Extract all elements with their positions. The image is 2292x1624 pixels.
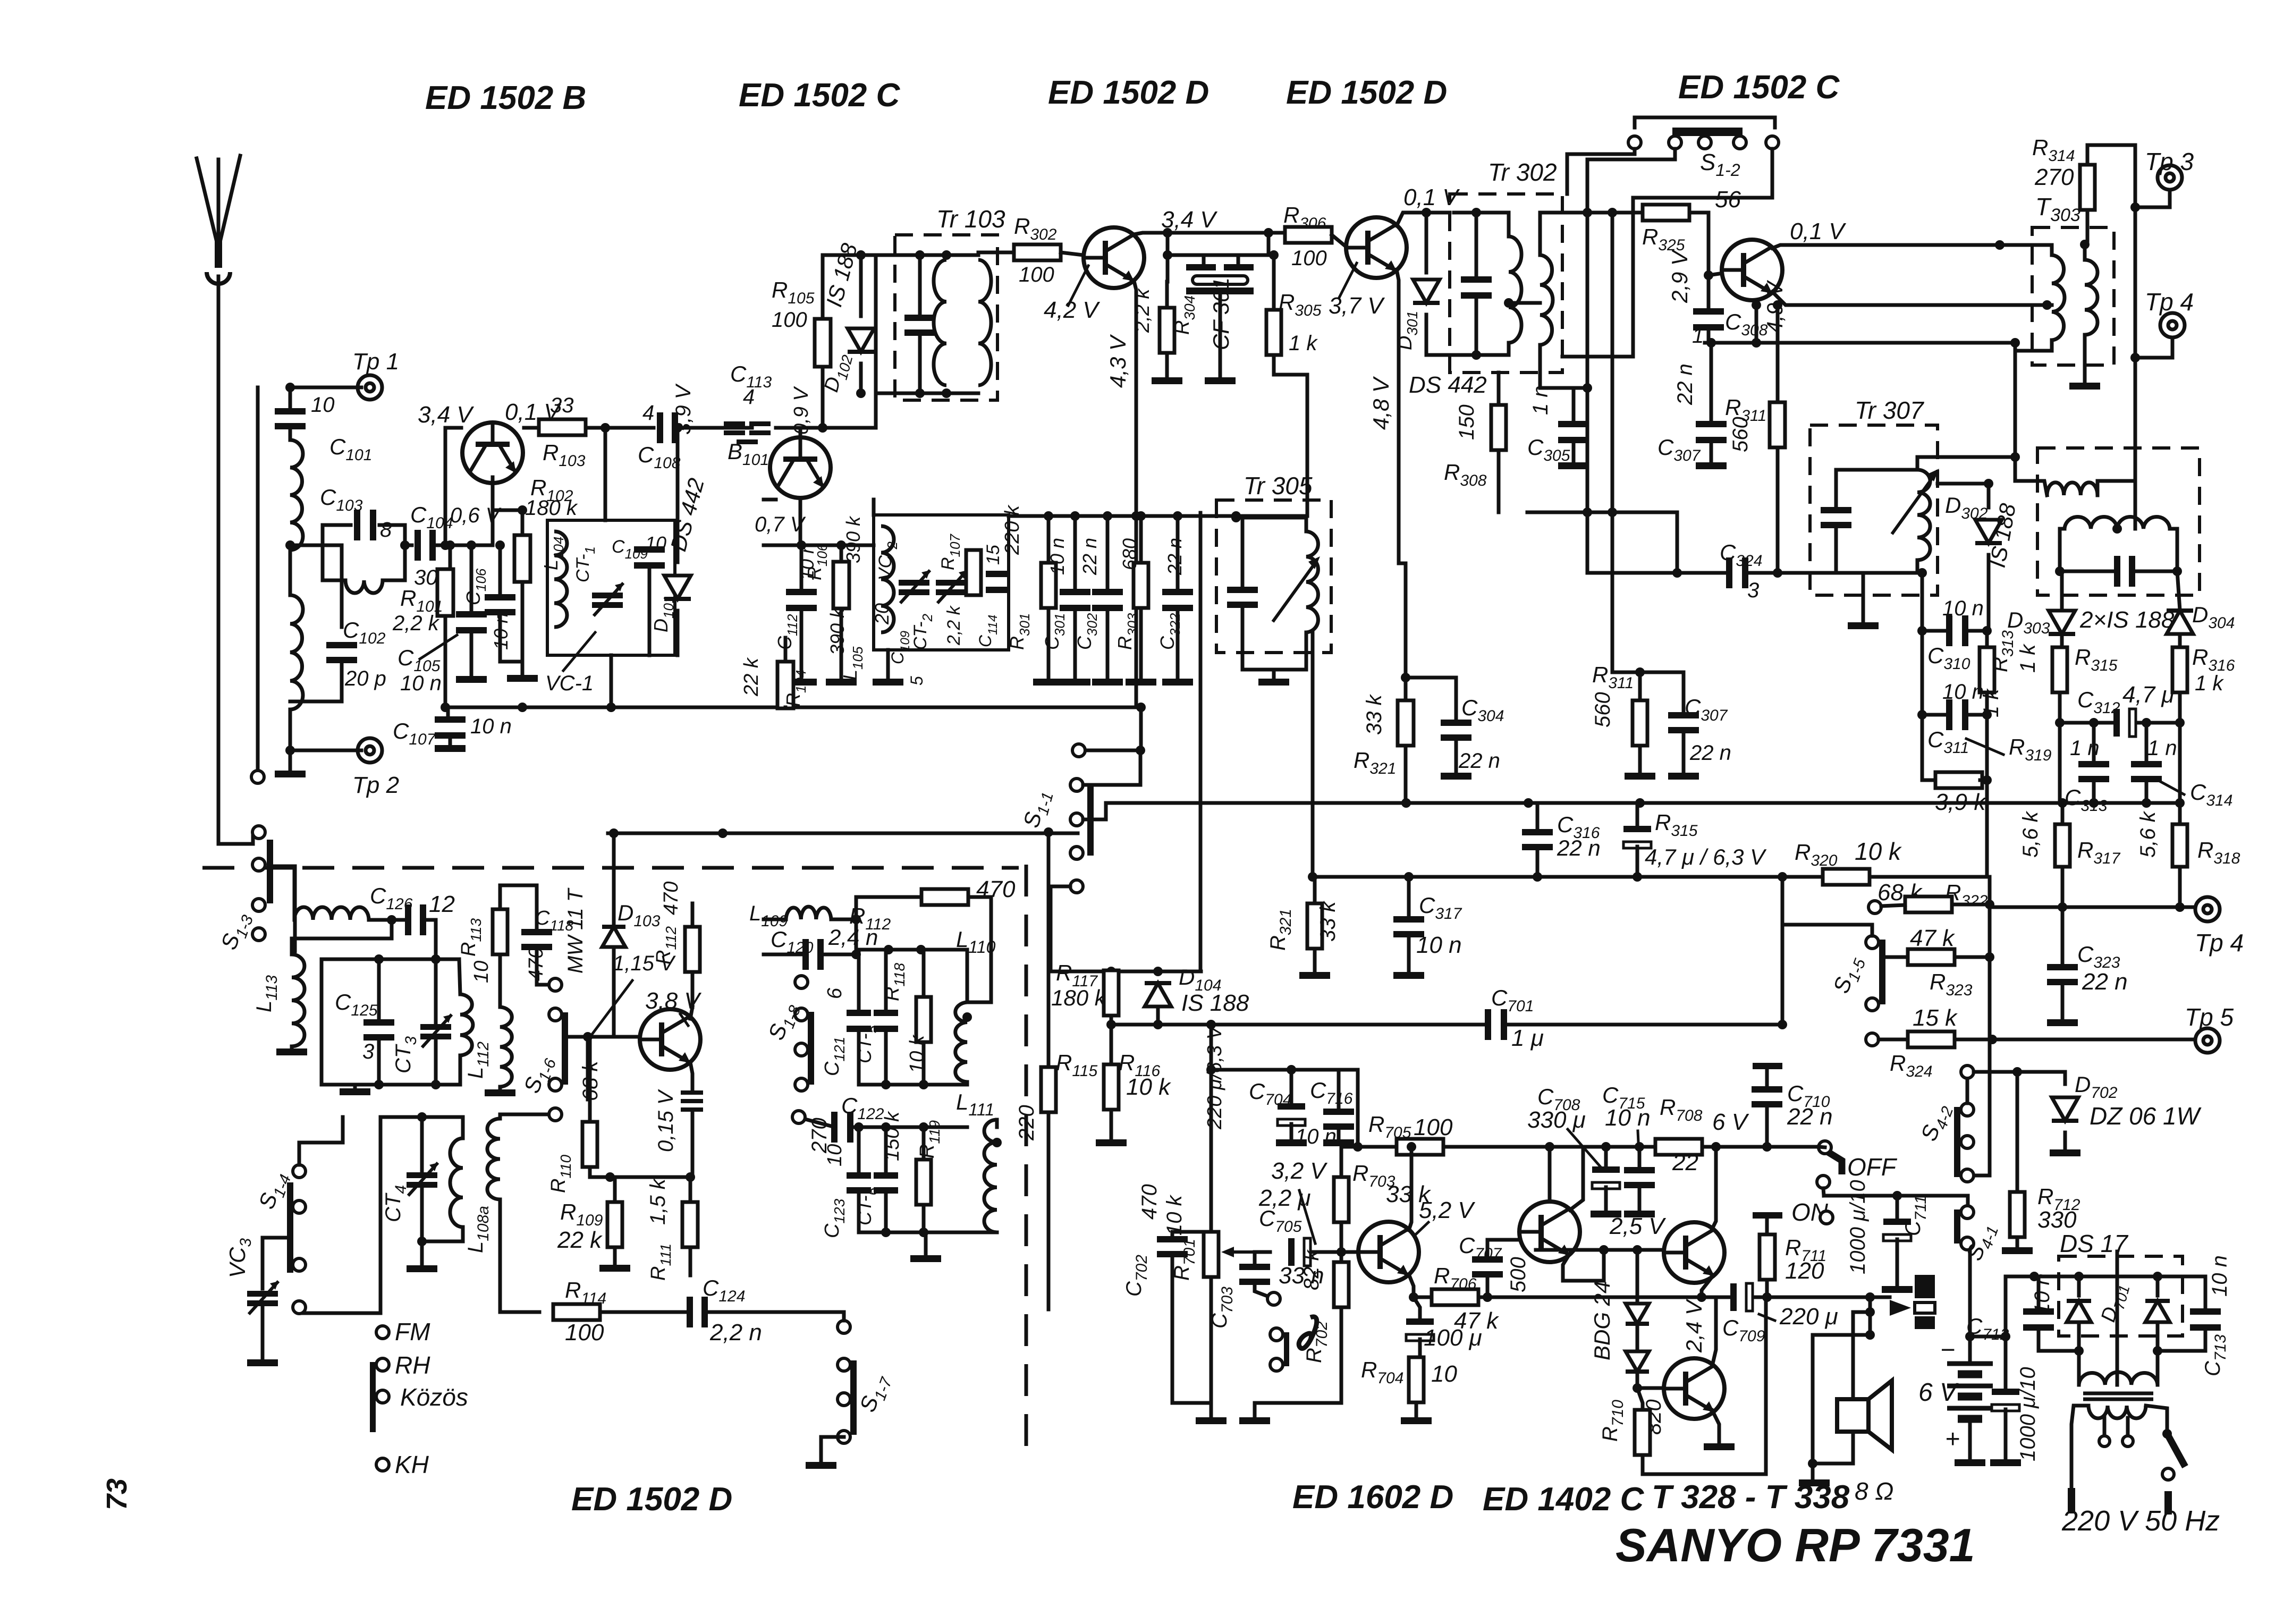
svg-text:33: 33 bbox=[550, 394, 574, 417]
wire C317 top bbox=[1407, 877, 1411, 918]
svg-text:22 n: 22 n bbox=[2082, 969, 2128, 995]
svg-text:2,9 V: 2,9 V bbox=[1667, 249, 1692, 303]
MW tank coil bbox=[460, 994, 473, 1055]
node x3354 AGC bbox=[1778, 1020, 1787, 1029]
wire bbox=[498, 885, 502, 909]
wire C716 bottom bbox=[1337, 1128, 1341, 1138]
resistor R316 bbox=[2172, 647, 2187, 692]
wire C708 bottom bbox=[1418, 1339, 1422, 1357]
wire right column bbox=[2014, 343, 2017, 481]
ground L112 bbox=[485, 1089, 515, 1096]
S1-6 contact bottom bbox=[549, 1108, 562, 1121]
wire C311 right bbox=[1969, 713, 1987, 717]
wire jack contacts bbox=[1868, 1297, 1872, 1335]
svg-text:3: 3 bbox=[1747, 579, 1759, 602]
wire T102 emitter left bbox=[764, 498, 776, 502]
terminal RH bbox=[376, 1358, 389, 1371]
wire T702 collector bbox=[1548, 1147, 1552, 1202]
svg-text:100: 100 bbox=[1291, 247, 1327, 270]
arrow C715 bbox=[1638, 1131, 1639, 1165]
wire R703 bottom bbox=[1340, 1222, 1343, 1252]
node C714 bbox=[2001, 1332, 2010, 1341]
wire S1-1 to detector row bbox=[1051, 886, 1070, 971]
wire sec left lead bbox=[2077, 1351, 2081, 1385]
arrow 5,2V bbox=[1416, 1222, 1428, 1234]
ground C716 bbox=[1323, 1139, 1354, 1146]
svg-text:12: 12 bbox=[429, 891, 455, 917]
pot wiper arrow bbox=[1228, 1250, 1270, 1254]
ground L113 bbox=[276, 1048, 307, 1055]
capacitor C105 bbox=[456, 611, 487, 633]
resistor R110 box bbox=[582, 1122, 597, 1167]
wire to diodes bbox=[1636, 1250, 1639, 1300]
svg-text:3,4 V: 3,4 V bbox=[418, 402, 474, 428]
svg-text:DS 442: DS 442 bbox=[1409, 372, 1487, 398]
wire bbox=[521, 510, 525, 535]
svg-text:500: 500 bbox=[1507, 1257, 1530, 1292]
svg-text:10 n: 10 n bbox=[2031, 1273, 2054, 1315]
wire battery top bbox=[1968, 1337, 1972, 1364]
wire T301 emitter down bbox=[1134, 281, 1136, 707]
wire R702 to ground bbox=[1255, 1307, 1341, 1416]
wire R712 bottom bbox=[2016, 1237, 2019, 1246]
node jack sleeve bbox=[1865, 1330, 1875, 1340]
wire R706 right bbox=[1478, 1296, 1527, 1299]
wire R105 bottom bbox=[821, 367, 825, 428]
wire C708a top bbox=[1604, 1147, 1608, 1168]
wire coil top bbox=[459, 959, 460, 994]
ground R321 e bbox=[1299, 972, 1330, 979]
wire bbox=[1168, 233, 1204, 255]
wire sec top bbox=[2083, 244, 2087, 260]
wire 470 right bbox=[968, 897, 991, 1002]
wire emitter bbox=[690, 1062, 692, 1089]
svg-text:5: 5 bbox=[907, 676, 926, 686]
wire Tr302 top bbox=[1454, 213, 1509, 236]
capacitor C123 plates bbox=[847, 1172, 871, 1194]
S1-3 contact bottom bbox=[252, 928, 265, 941]
resistor R315 bbox=[2052, 647, 2067, 692]
ground R311 lower bbox=[1625, 773, 1655, 780]
svg-text:2,4 V: 2,4 V bbox=[1681, 1298, 1706, 1353]
wire C301 bottom bbox=[1073, 610, 1077, 678]
ground R712 bbox=[2002, 1247, 2033, 1254]
diode D103 symbol bbox=[602, 927, 625, 947]
wire CF top bbox=[1204, 253, 1238, 257]
wire feedback loop bbox=[1643, 1297, 1766, 1474]
resistor R106 bbox=[833, 562, 849, 608]
svg-text:10 k: 10 k bbox=[1126, 1074, 1171, 1100]
resistor R311 560 lower bbox=[1633, 700, 1647, 746]
ground R303 bbox=[1126, 679, 1156, 686]
svg-text:150: 150 bbox=[1455, 404, 1478, 440]
wire bbox=[612, 833, 616, 925]
Tr307 coil bbox=[1917, 470, 1930, 560]
detector coupling coil bbox=[2047, 483, 2098, 495]
wire R106 top bbox=[840, 545, 843, 562]
node jack ring bbox=[1865, 1307, 1875, 1317]
wire R314 top bbox=[2087, 145, 2135, 165]
wire coupling to center bbox=[2098, 481, 2135, 495]
wire bbox=[470, 632, 473, 675]
svg-text:330 μ: 330 μ bbox=[1527, 1107, 1586, 1133]
svg-text:220 μ/6,3 V: 220 μ/6,3 V bbox=[1204, 1024, 1226, 1130]
wire S4-2 up bbox=[1966, 1072, 1969, 1103]
wire R106 bottom bbox=[840, 608, 843, 678]
wire bbox=[405, 544, 412, 547]
wire sec bottom bbox=[1538, 345, 1542, 375]
svg-text:1000 μ/10: 1000 μ/10 bbox=[1846, 1180, 1870, 1274]
wire bbox=[290, 544, 323, 547]
S1-8 contact top bbox=[795, 976, 808, 988]
primary tap 2 bbox=[2122, 1436, 2133, 1447]
wire y1828 bbox=[1051, 970, 1201, 974]
wire C313 top bbox=[2092, 723, 2096, 761]
wire Tr307 top bbox=[1836, 468, 1917, 472]
wire to L113 bbox=[273, 866, 295, 951]
wire Tp4 row bbox=[1990, 906, 2195, 909]
wire L110 top to 470 bbox=[967, 1001, 991, 1004]
svg-text:5,6 k: 5,6 k bbox=[2136, 810, 2160, 858]
wire to T303stage base bbox=[1689, 213, 1709, 275]
wire C324 left bbox=[1677, 571, 1730, 575]
wire T303 top bbox=[2000, 245, 2052, 255]
wire base row bbox=[1536, 1248, 1662, 1252]
node 4,7u bbox=[1633, 872, 1642, 882]
node output bbox=[1697, 1292, 1706, 1302]
node Tp2 junction bbox=[285, 746, 295, 755]
wire R711 bottom bbox=[1765, 1280, 1769, 1297]
wire C125 bottom bbox=[377, 1039, 381, 1085]
wire to B101 bbox=[776, 426, 876, 430]
wire R303 bottom bbox=[1139, 608, 1143, 678]
ground C112 bbox=[786, 679, 817, 686]
svg-text:220: 220 bbox=[1015, 1105, 1038, 1141]
wire C121 top bbox=[857, 950, 861, 1011]
wire x3354 rail to AGC bbox=[1781, 877, 1784, 1025]
mid rail bbox=[1009, 514, 1307, 518]
headphone jack bbox=[1915, 1275, 1935, 1298]
ground C323 bbox=[2047, 1019, 2078, 1026]
inductor L108a bbox=[487, 1119, 500, 1199]
wire CF right bbox=[1237, 255, 1240, 264]
wire R308 bottom bbox=[1497, 450, 1501, 512]
wire bbox=[498, 1087, 502, 1088]
inductor L105 bbox=[881, 526, 894, 632]
wire up to rectifier rail bbox=[2006, 1276, 2205, 1337]
node speaker ground bbox=[1808, 1459, 1817, 1468]
wire OFF down bbox=[1823, 1188, 1824, 1196]
capacitor C711 1000u bbox=[1883, 1219, 1911, 1241]
wire emitter left bbox=[445, 426, 461, 430]
wire Tp3 column bbox=[2134, 145, 2137, 207]
terminal tap 2 bbox=[1270, 1358, 1283, 1371]
S4-2 contact bottom bbox=[1961, 1169, 1974, 1182]
wire R116 top bbox=[1110, 1025, 1113, 1064]
wire D702 top bbox=[2063, 1072, 2067, 1084]
wire C304 top bbox=[1454, 678, 1458, 721]
wire T704 base bbox=[1637, 1386, 1662, 1390]
svg-text:10: 10 bbox=[645, 532, 666, 554]
inductor L112 bbox=[500, 1007, 512, 1087]
wire 4,7u top bbox=[1636, 803, 1639, 827]
wire Tr302 bottom bbox=[1426, 353, 1509, 357]
wire Tr307 link right bbox=[1917, 457, 2015, 470]
wire bbox=[521, 582, 525, 674]
ground C105 bbox=[456, 676, 487, 683]
test point Tp 2 bbox=[358, 738, 382, 763]
wire Tr305 cap bottom bbox=[1241, 607, 1245, 670]
wire D304 bottom bbox=[2178, 634, 2182, 647]
wire to Tp4 bbox=[2135, 340, 2172, 358]
wire bbox=[586, 1037, 590, 1099]
node R317 bottom bbox=[2058, 902, 2067, 912]
capacitor C307 lower bbox=[1668, 712, 1699, 733]
wire bbox=[289, 426, 292, 440]
svg-text:330: 330 bbox=[2037, 1207, 2077, 1233]
svg-text:RH: RH bbox=[395, 1351, 430, 1379]
wire C702 bottom bbox=[1172, 1256, 1211, 1403]
svg-text:1: 1 bbox=[1692, 324, 1704, 348]
svg-text:ED 1502 D: ED 1502 D bbox=[1048, 74, 1209, 111]
svg-text:2,2 k: 2,2 k bbox=[392, 612, 440, 635]
node 3,4V bbox=[1163, 228, 1172, 238]
svg-text:22 n: 22 n bbox=[1673, 363, 1697, 405]
svg-text:6 V: 6 V bbox=[1918, 1378, 1959, 1407]
wire R315 down bbox=[2058, 692, 2062, 803]
wire x3744 to S4-2 bbox=[1975, 1039, 1990, 1175]
wire bbox=[289, 550, 292, 595]
wire C310 right bbox=[1969, 629, 1987, 633]
wire bbox=[856, 948, 967, 952]
wire R313 top bbox=[1985, 631, 1989, 647]
wire VC3 bottom bbox=[261, 1308, 265, 1358]
svg-text:1 μ: 1 μ bbox=[1511, 1025, 1544, 1051]
svg-text:22 k: 22 k bbox=[557, 1227, 603, 1253]
wire x2259 from mid rail bbox=[1199, 513, 1203, 971]
wire C316 top bbox=[1536, 803, 1540, 831]
wire S1-6 to T107 base bbox=[568, 1035, 638, 1039]
transistor T703 bbox=[1664, 1222, 1724, 1283]
ground tank2 bbox=[910, 1255, 941, 1262]
wire R304 bottom bbox=[1165, 353, 1169, 376]
svg-text:100: 100 bbox=[1019, 263, 1054, 286]
wire col down to C324 bbox=[1587, 512, 1677, 573]
svg-text:15: 15 bbox=[983, 545, 1003, 565]
S1-2 contact 2 bbox=[1669, 136, 1681, 149]
capacitor C714 1000u bbox=[1992, 1389, 2019, 1411]
wire R305 down to rail bbox=[1274, 355, 1307, 516]
wire cap top bbox=[918, 255, 922, 316]
wire D102 top bbox=[859, 255, 863, 316]
wire link bbox=[1640, 671, 1684, 674]
wire bbox=[691, 972, 695, 1007]
wire L111 top bbox=[995, 1120, 999, 1127]
Tr302 secondary coil bbox=[1540, 255, 1553, 345]
wire C125 top bbox=[377, 959, 381, 1020]
svg-text:220 μ: 220 μ bbox=[1779, 1304, 1838, 1330]
wire center tap bbox=[2134, 481, 2137, 529]
wire det right down bbox=[2170, 529, 2177, 571]
ground Tr305 bbox=[1258, 679, 1289, 686]
wire collector bbox=[690, 1007, 692, 1019]
wire rail to tile F bbox=[1443, 1145, 1542, 1149]
svg-text:IS 188: IS 188 bbox=[1181, 990, 1249, 1016]
ground C317 bbox=[1393, 972, 1424, 979]
svg-text:680: 680 bbox=[1119, 538, 1140, 570]
wire pot feed bbox=[1210, 1025, 1213, 1232]
svg-text:270: 270 bbox=[2034, 164, 2074, 190]
wire to C126 bbox=[369, 918, 408, 922]
wire C710 bottom bbox=[1765, 1106, 1769, 1147]
terminal FM bbox=[376, 1326, 389, 1339]
svg-text:ED 1502 B: ED 1502 B bbox=[425, 80, 586, 116]
svg-text:4,7 μ: 4,7 μ bbox=[2122, 682, 2175, 708]
arrow C709 bbox=[1759, 1314, 1775, 1321]
wire R116 bottom bbox=[1110, 1110, 1113, 1138]
ground bbox=[275, 771, 306, 777]
arrow 3,7V bbox=[1339, 263, 1357, 298]
transistor T302 bbox=[1346, 217, 1407, 278]
wire C710 top bbox=[1765, 1069, 1769, 1087]
wire D104 bottom bbox=[1156, 1006, 1160, 1025]
ground R109 bbox=[599, 1265, 630, 1272]
node battery bbox=[1965, 1332, 1975, 1341]
top bus MW bbox=[608, 832, 1078, 835]
wire T302 collector bbox=[1397, 213, 1426, 226]
wire C703 top bbox=[1255, 1252, 1270, 1265]
wire R119 bottom bbox=[922, 1205, 926, 1232]
wire to S1-7 bbox=[705, 1310, 844, 1314]
svg-text:82 k: 82 k bbox=[1300, 1249, 1323, 1290]
wire C323 top bbox=[2061, 907, 2065, 965]
resistor R311 560 bbox=[1770, 402, 1785, 447]
wire CT4 bottom bbox=[420, 1189, 424, 1241]
test point Tp 1 bbox=[358, 375, 382, 400]
wire Tr305 bottom bbox=[1242, 632, 1306, 670]
wire bbox=[691, 1112, 695, 1177]
wire coil down bbox=[461, 1227, 465, 1241]
svg-text:10 k: 10 k bbox=[1163, 1194, 1186, 1236]
transistor T702 bbox=[1519, 1202, 1580, 1262]
wire C713 top bbox=[2204, 1276, 2208, 1310]
wire R105 top bbox=[821, 255, 825, 319]
terminal KH bbox=[376, 1458, 389, 1471]
wire bbox=[449, 545, 452, 570]
wire S1-1 top to riser bbox=[1083, 750, 1140, 785]
wire y645 bbox=[1705, 341, 2015, 345]
wire y671 stub bbox=[1562, 355, 1633, 359]
wire C317 bottom bbox=[1407, 936, 1411, 971]
wire center tap up bbox=[2116, 1251, 2119, 1385]
svg-text:Tp 3: Tp 3 bbox=[2145, 148, 2194, 175]
diode D702 symbol bbox=[2052, 1097, 2078, 1121]
svg-text:22 k: 22 k bbox=[740, 657, 763, 697]
S1-3 contact top bbox=[252, 826, 265, 839]
wire C305 top bbox=[1572, 388, 1576, 422]
Tr302 primary coil bbox=[1509, 236, 1521, 343]
svg-text:30: 30 bbox=[414, 566, 438, 589]
svg-text:22 n: 22 n bbox=[1079, 538, 1101, 576]
svg-text:8 Ω: 8 Ω bbox=[1855, 1477, 1893, 1505]
wire C709 left bbox=[1702, 1296, 1729, 1299]
wire to R311 bbox=[1776, 305, 1780, 402]
svg-text:220 V 50 Hz: 220 V 50 Hz bbox=[2061, 1505, 2220, 1537]
wire battery bottom bbox=[1968, 1419, 1972, 1458]
trimmer CT-2 bbox=[936, 570, 967, 603]
S1-4 contact 2 bbox=[293, 1200, 306, 1213]
wire rail to col bbox=[1527, 511, 1677, 514]
wire C112 top bbox=[800, 545, 804, 591]
wire S1-2 left down bbox=[1587, 149, 1675, 213]
wire R318 bottom bbox=[2178, 867, 2182, 907]
arrow 4,2V bbox=[1068, 266, 1088, 306]
wire C307 top bbox=[1710, 343, 1713, 422]
S1-7 contact 3 bbox=[838, 1393, 850, 1406]
LW tank coil bbox=[450, 1138, 463, 1227]
wire C715 top bbox=[1638, 1147, 1642, 1168]
speaker bbox=[1837, 1399, 1868, 1432]
svg-text:390 k: 390 k bbox=[842, 515, 864, 563]
wire C302 top bbox=[1106, 516, 1110, 591]
wire bbox=[689, 1177, 692, 1202]
svg-text:ED 1502 C: ED 1502 C bbox=[739, 77, 901, 114]
AF bus y1511 bbox=[1106, 801, 2180, 805]
wire bbox=[590, 1167, 610, 1177]
node R318 bottom bbox=[2175, 902, 2185, 912]
wire R301 top bbox=[1047, 516, 1051, 563]
ground speaker bbox=[1799, 1479, 1830, 1486]
svg-text:2×IS 188: 2×IS 188 bbox=[2079, 607, 2175, 633]
S1-2 outline bbox=[1635, 117, 1775, 128]
wire R104 top bbox=[784, 638, 788, 662]
S1-3 contact mid bbox=[252, 858, 265, 871]
wire R119 top bbox=[922, 1127, 926, 1160]
inductor L101 bbox=[290, 440, 303, 550]
svg-text:ED 1402 C: ED 1402 C bbox=[1483, 1481, 1645, 1518]
ground T303 bbox=[2069, 383, 2100, 390]
svg-text:22 n: 22 n bbox=[1557, 835, 1601, 860]
S1-8 contact 4 bbox=[795, 1078, 808, 1091]
wire LW left down bbox=[379, 1117, 383, 1313]
wire coil to bottom bbox=[1916, 560, 1919, 573]
wire bbox=[289, 750, 292, 769]
wire bbox=[379, 525, 405, 580]
svg-text:0,1 V: 0,1 V bbox=[1403, 184, 1460, 210]
svg-text:560: 560 bbox=[1729, 417, 1752, 452]
antenna bbox=[197, 158, 218, 249]
svg-text:100: 100 bbox=[565, 1319, 604, 1346]
resistor R304 bbox=[1160, 308, 1174, 353]
node R106 bbox=[836, 540, 846, 550]
wire C712 bottom bbox=[2039, 1329, 2079, 1351]
wire D301 bottom bbox=[1425, 315, 1428, 355]
S1-8 contact 2 bbox=[795, 1008, 808, 1021]
svg-text:0,15 V: 0,15 V bbox=[654, 1089, 678, 1152]
wire C305 link bbox=[1574, 386, 1587, 390]
wire R701 bottom bbox=[1210, 1277, 1213, 1416]
wire gnd lead bbox=[420, 1241, 424, 1264]
wire Tr307 cap top bbox=[1834, 470, 1838, 508]
ratio detector box bbox=[2037, 448, 2200, 595]
wire R321 to C304 bbox=[1406, 676, 1456, 680]
wire antenna down to S1-3 bbox=[218, 276, 253, 844]
svg-text:Tr 103: Tr 103 bbox=[936, 205, 1005, 233]
wire to Tp3 bbox=[2135, 191, 2170, 207]
node C314 bus bbox=[2142, 798, 2151, 808]
resistor R313 bbox=[1980, 647, 1994, 692]
wire C707 to T702 base bbox=[1487, 1240, 1519, 1257]
